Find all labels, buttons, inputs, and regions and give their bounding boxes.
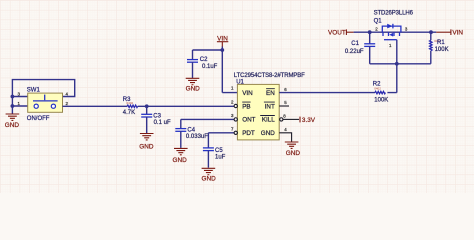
svg-text:PDT: PDT — [242, 130, 255, 137]
svg-text:0.033uF: 0.033uF — [186, 134, 208, 140]
svg-text:0.22uF: 0.22uF — [345, 49, 364, 55]
svg-text:INT: INT — [265, 103, 275, 110]
svg-text:VIN: VIN — [242, 90, 253, 97]
svg-text:GND: GND — [261, 130, 275, 137]
svg-text:VOUT: VOUT — [328, 29, 346, 36]
svg-text:KILL: KILL — [262, 117, 275, 124]
svg-text:100K: 100K — [374, 98, 388, 104]
svg-text:GND: GND — [172, 157, 187, 164]
svg-text:0402: 0402 — [374, 87, 381, 91]
svg-text:3.3V: 3.3V — [302, 117, 316, 124]
svg-text:0402: 0402 — [127, 101, 134, 105]
svg-text:GND: GND — [201, 176, 216, 183]
svg-text:SW1: SW1 — [27, 88, 41, 94]
svg-text:VIN: VIN — [452, 30, 463, 37]
svg-text:100K: 100K — [435, 47, 449, 53]
svg-text:Q1: Q1 — [374, 18, 383, 24]
svg-text:ONT: ONT — [242, 117, 255, 124]
svg-text:ON/OFF: ON/OFF — [27, 116, 50, 122]
svg-text:C4: C4 — [187, 128, 195, 134]
svg-text:C1: C1 — [351, 41, 359, 47]
svg-text:R1: R1 — [437, 40, 445, 46]
svg-text:1uF: 1uF — [215, 155, 226, 161]
svg-text:0.1uF: 0.1uF — [202, 64, 218, 70]
svg-text:GND: GND — [286, 150, 301, 157]
svg-text:0.1 uF: 0.1 uF — [154, 120, 171, 126]
svg-text:GND: GND — [5, 122, 20, 129]
svg-text:C3: C3 — [153, 113, 161, 119]
svg-text:STD26P3LLH6: STD26P3LLH6 — [374, 11, 414, 17]
svg-text:C2: C2 — [200, 57, 208, 63]
svg-text:C5: C5 — [215, 148, 223, 154]
svg-text:LTC2954CTS8-2#TRMPBF: LTC2954CTS8-2#TRMPBF — [234, 73, 305, 79]
svg-text:GND: GND — [139, 143, 154, 150]
svg-text:GND: GND — [186, 86, 201, 93]
svg-text:EN: EN — [266, 90, 275, 97]
svg-text:PB: PB — [242, 103, 250, 110]
svg-text:4.7K: 4.7K — [123, 110, 135, 116]
